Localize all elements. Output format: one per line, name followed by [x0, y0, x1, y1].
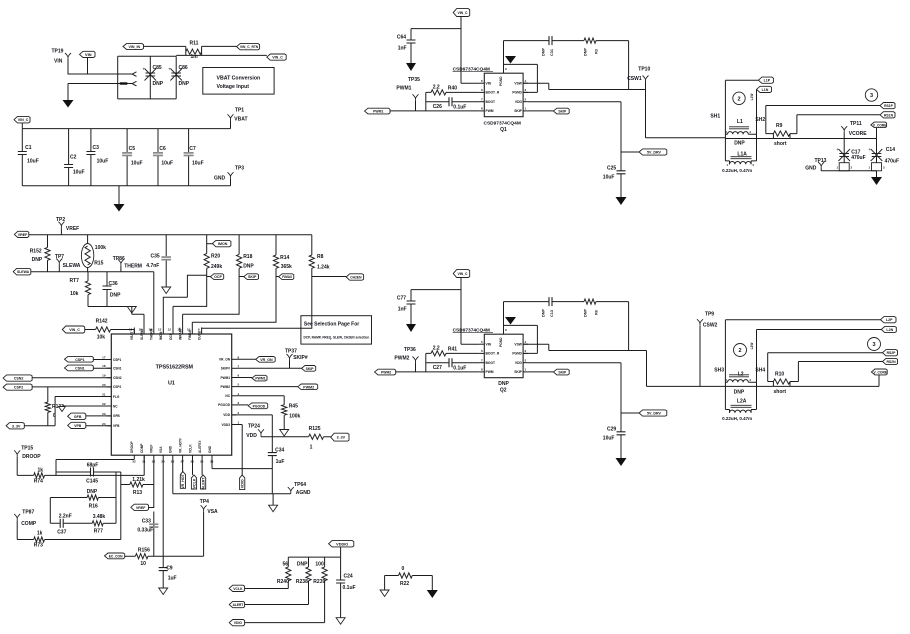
svg-text:RS2N: RS2N	[886, 360, 896, 364]
resistor R14 365k	[275, 235, 277, 277]
power tag VIN_C Q1	[453, 9, 470, 17]
test point TP35 PWM1	[413, 94, 419, 101]
resistor R11	[144, 46, 237, 55]
svg-text:CSP1: CSP1	[113, 358, 122, 362]
pin 22 NC	[107, 405, 112, 407]
svg-text:TP36: TP36	[404, 347, 416, 353]
wire RS2P	[768, 353, 883, 382]
svg-text:PWM: PWM	[486, 109, 494, 113]
net tag V_CORE ch1	[871, 122, 887, 128]
svg-text:CSW2: CSW2	[703, 323, 718, 329]
pin 4 NC	[232, 395, 237, 397]
capacitor C9 1uF	[162, 556, 164, 588]
svg-text:SH3: SH3	[714, 368, 724, 374]
svg-text:R10: R10	[775, 372, 784, 378]
net tag VDIO bottom	[229, 620, 244, 626]
resistor R74 1k	[17, 474, 56, 476]
svg-text:PGOOD: PGOOD	[253, 404, 266, 408]
ground C24	[336, 618, 345, 625]
test point TP37 SKIP#	[287, 354, 293, 361]
net tag SLEWA	[13, 268, 31, 275]
svg-text:+: +	[868, 147, 871, 152]
pin 26 VCLK	[192, 455, 194, 459]
marker circle 3	[865, 89, 877, 101]
wire VDD row	[261, 435, 331, 438]
marker circle 3 ch2	[868, 338, 881, 351]
svg-text:C27: C27	[433, 365, 442, 371]
net tag SKIP Q1	[528, 110, 554, 112]
svg-text:470uF: 470uF	[851, 155, 865, 161]
pin 24 VFB	[107, 425, 112, 427]
svg-text:PWM2: PWM2	[220, 385, 230, 389]
capacitor C77 1nF	[410, 290, 412, 324]
svg-text:R238: R238	[296, 579, 308, 585]
svg-text:U1: U1	[168, 381, 175, 387]
wire SH2 vertical	[756, 89, 758, 160]
svg-text:C2: C2	[70, 155, 77, 161]
svg-text:1: 1	[310, 444, 313, 450]
svg-text:5V_DRV: 5V_DRV	[647, 151, 662, 155]
svg-text:VIN_C: VIN_C	[272, 56, 283, 60]
svg-text:68pF: 68pF	[87, 462, 99, 468]
svg-text:GFB: GFB	[113, 414, 120, 418]
svg-text:15: 15	[139, 328, 143, 332]
svg-text:DNP: DNP	[734, 389, 745, 395]
net tag VIN_C_RTN	[237, 44, 260, 50]
svg-text:DNP: DNP	[32, 257, 43, 263]
svg-text:DNP: DNP	[584, 48, 588, 56]
svg-text:TP37: TP37	[285, 349, 297, 355]
wire VDD3 pin route	[232, 424, 243, 426]
svg-text:ALERT: ALERT	[233, 603, 244, 607]
net tag CSP1	[65, 356, 94, 362]
pin 18 CSN1	[107, 367, 112, 369]
wire output gnd rail	[821, 171, 876, 177]
test point TP4 VSA	[201, 505, 207, 512]
svg-text:2: 2	[737, 96, 740, 102]
svg-text:DNP: DNP	[584, 309, 588, 317]
svg-text:ALERT: ALERT	[201, 477, 205, 490]
ground	[63, 100, 74, 108]
svg-text:SKIP: SKIP	[248, 275, 257, 279]
test point TP15 DROOP	[14, 450, 20, 457]
pin 31 COMP	[143, 455, 145, 459]
svg-text:R13: R13	[133, 490, 142, 496]
svg-text:C5: C5	[129, 146, 136, 152]
capacitor C1	[21, 129, 23, 186]
svg-text:SKIP#: SKIP#	[221, 367, 230, 371]
svg-text:C85: C85	[153, 65, 162, 71]
net tag VIN	[80, 51, 96, 57]
pin 1 VDD3	[232, 424, 237, 426]
note box See Selection	[301, 316, 372, 344]
svg-text:SKIP: SKIP	[306, 367, 315, 371]
resistor R142 10k	[85, 330, 135, 335]
svg-text:DNP: DNP	[243, 264, 254, 270]
wire VDDIO rail	[288, 547, 340, 557]
wire VCC stub Q2	[411, 278, 480, 345]
svg-text:VSW: VSW	[514, 343, 522, 347]
svg-text:GND: GND	[208, 445, 212, 453]
svg-text:ALERT#: ALERT#	[198, 440, 202, 453]
svg-text:VR_ON: VR_ON	[219, 358, 231, 362]
svg-text:GND: GND	[805, 165, 817, 171]
capacitor C26 0.1uF	[426, 92, 480, 111]
ground NC mark	[62, 405, 111, 407]
svg-text:BOOT_R: BOOT_R	[486, 91, 500, 95]
inductor L2A 0.22uH	[731, 405, 752, 407]
svg-text:1k: 1k	[37, 531, 43, 537]
svg-text:0: 0	[402, 566, 405, 572]
svg-text:2.2: 2.2	[433, 85, 440, 91]
svg-text:VSA: VSA	[159, 446, 163, 453]
svg-text:SH4: SH4	[755, 368, 765, 374]
svg-text:CSP2: CSP2	[113, 385, 122, 389]
svg-text:PWM1: PWM1	[255, 377, 265, 381]
wire PWM row Q2	[396, 371, 480, 373]
resistor R132 0	[47, 387, 49, 426]
wire VFB	[86, 425, 112, 427]
svg-text:VREF: VREF	[66, 226, 79, 232]
svg-text:C3: C3	[93, 145, 100, 151]
test point TP1 VBAT	[228, 114, 234, 121]
net tag VCLK bottom	[229, 585, 244, 591]
svg-text:VDD: VDD	[223, 413, 230, 417]
svg-text:C64: C64	[397, 35, 406, 41]
net tag VIN_C 3	[62, 326, 84, 333]
capacitor C37 2.2nF	[50, 522, 92, 524]
svg-text:10uF: 10uF	[73, 170, 85, 176]
svg-text:VIN_C: VIN_C	[457, 272, 468, 276]
svg-text:3: 3	[870, 93, 873, 99]
svg-text:10uF: 10uF	[97, 158, 109, 164]
test point TP87 COMP	[14, 514, 20, 521]
wire VIN tag stub	[87, 58, 89, 75]
svg-text:10uF: 10uF	[603, 436, 615, 442]
pin 14 THERM	[153, 328, 155, 335]
wire VIN_C branch	[176, 54, 267, 56]
net tag RS1N	[880, 112, 895, 118]
svg-text:10uF: 10uF	[131, 160, 143, 166]
svg-text:BOOT: BOOT	[486, 361, 496, 365]
svg-text:TP86: TP86	[113, 256, 125, 262]
IC U1 TPS51622RSM	[111, 334, 231, 455]
net tag CSN2	[3, 375, 32, 381]
wire RS2N	[790, 362, 883, 382]
wire GND rail	[22, 185, 230, 187]
svg-text:C7: C7	[189, 146, 196, 152]
pin 1 SKIP Q1	[523, 110, 528, 112]
svg-text:C25: C25	[607, 165, 616, 171]
svg-text:12: 12	[168, 328, 172, 332]
net tag L2P	[725, 319, 880, 321]
wire VSW net Q1	[523, 83, 629, 89]
resistor RT7 10k	[87, 272, 89, 307]
svg-text:3.48k: 3.48k	[93, 514, 106, 520]
pin 25 ALERT#	[201, 455, 203, 459]
pin 2 VDD Q2	[523, 362, 528, 364]
svg-text:DNP: DNP	[110, 292, 121, 298]
svg-text:1k: 1k	[38, 468, 44, 474]
svg-text:R77: R77	[94, 529, 103, 535]
svg-text:C86: C86	[179, 65, 188, 71]
capacitor C35 4.7nF	[165, 235, 167, 287]
pin 15 SLEWA	[143, 328, 145, 335]
ground R45	[280, 430, 289, 437]
net tag 3_3V	[6, 423, 24, 429]
svg-text:R9: R9	[776, 123, 783, 129]
net tag GFB	[68, 413, 86, 419]
svg-text:14: 14	[148, 328, 152, 332]
wire FIMAX to pin	[192, 277, 276, 328]
IC Q1 CSD97374CQ4M	[484, 73, 523, 117]
svg-text:C35: C35	[151, 253, 160, 259]
wire CSP1	[93, 359, 111, 361]
svg-text:TP15: TP15	[21, 446, 33, 452]
IC Q2 CSD97374CQ4M	[484, 334, 523, 378]
net tag CSP2	[3, 384, 32, 390]
svg-text:GND: GND	[214, 176, 226, 182]
pin 6 BOOT_R Q2	[480, 352, 485, 354]
svg-text:C36: C36	[109, 281, 118, 287]
pin 10 FIMAX	[191, 328, 193, 335]
svg-text:TP10: TP10	[638, 67, 650, 73]
pin 9 OUSB	[201, 328, 203, 335]
wire V_CORE stub ch2	[878, 375, 880, 387]
resistor R73 1k	[17, 455, 144, 539]
svg-text:18: 18	[102, 364, 106, 368]
svg-text:PGND: PGND	[499, 337, 503, 347]
svg-text:365k: 365k	[281, 264, 292, 270]
pin 30 VREF	[153, 455, 155, 459]
capacitor C17 470uF	[843, 133, 845, 163]
test point TP7 SLEWA	[56, 259, 62, 266]
svg-text:2: 2	[738, 348, 741, 354]
svg-text:24: 24	[102, 422, 106, 426]
capacitor C86	[171, 73, 181, 76]
svg-text:VDIO: VDIO	[234, 621, 243, 625]
capacitor C36 DNP	[106, 272, 108, 307]
net tag L1N	[757, 86, 772, 92]
svg-text:56: 56	[283, 562, 289, 568]
ground C29	[616, 458, 627, 466]
svg-text:IMON: IMON	[159, 331, 163, 340]
svg-text:RT7: RT7	[70, 278, 80, 284]
resistor R20 249k	[206, 235, 208, 277]
resistor R8 1.24k	[311, 235, 313, 277]
svg-text:100k: 100k	[95, 245, 106, 251]
svg-text:DNP: DNP	[297, 562, 308, 568]
ground C64	[406, 63, 416, 71]
pin 7 BOOT Q2	[480, 362, 485, 364]
svg-text:DNP: DNP	[542, 48, 546, 56]
svg-text:SH2: SH2	[755, 117, 765, 123]
svg-text:VR_HOT: VR_HOT	[181, 473, 185, 488]
capacitor C24 0.1uF	[340, 557, 342, 618]
ground C9	[159, 588, 168, 595]
wire SLEWA row	[31, 271, 107, 273]
svg-text:VR_ON: VR_ON	[260, 358, 273, 362]
svg-text:TP7: TP7	[55, 254, 64, 260]
net tag L1P	[725, 79, 758, 81]
net tag VDDIO	[329, 541, 354, 547]
wire cap loop	[118, 56, 177, 99]
test point TP13 GND	[818, 162, 824, 169]
svg-text:RS1P: RS1P	[884, 104, 894, 108]
test point TP86 THERM	[118, 259, 124, 266]
svg-text:VSW: VSW	[514, 82, 522, 86]
svg-text:R20: R20	[211, 253, 220, 259]
capacitor C34 1uF	[271, 415, 273, 469]
svg-text:GND: GND	[169, 445, 173, 453]
svg-text:2.2nF: 2.2nF	[59, 513, 72, 519]
svg-text:0.33uF: 0.33uF	[137, 527, 153, 533]
svg-text:TP4: TP4	[200, 499, 209, 505]
wire SH3 vertical	[724, 320, 726, 410]
svg-text:COMP: COMP	[140, 443, 144, 453]
svg-text:DROOP: DROOP	[130, 440, 134, 453]
svg-text:C6: C6	[159, 146, 166, 152]
wire VCORE rail ch2	[725, 385, 879, 387]
svg-text:VDDIO: VDDIO	[336, 542, 348, 546]
net tag VIN_C 2	[14, 116, 30, 123]
svg-text:GFB: GFB	[74, 415, 82, 419]
svg-text:BOOT: BOOT	[486, 100, 496, 104]
svg-text:VFB: VFB	[74, 424, 82, 428]
svg-text:VCLK: VCLK	[233, 587, 243, 591]
svg-text:CSN2: CSN2	[14, 377, 24, 381]
pin 5 VIN Q1	[480, 82, 485, 84]
svg-text:C145: C145	[86, 478, 98, 484]
pin 13 IMON	[162, 328, 164, 335]
wire CSN1	[93, 367, 111, 369]
resistor R240 56	[287, 557, 289, 588]
capacitor C3	[90, 129, 92, 186]
wire SKIP to pin	[183, 277, 240, 328]
svg-text:Voltage Input: Voltage Input	[217, 84, 250, 90]
svg-text:R15: R15	[94, 261, 103, 267]
test point TP19	[65, 53, 71, 60]
pin 20 CSP2	[107, 386, 112, 388]
resistor R9 short	[773, 131, 790, 136]
wire VREF pin net	[153, 460, 155, 557]
wire SLEWA pin route	[132, 307, 144, 335]
capacitor C6	[157, 129, 159, 186]
svg-text:PGND: PGND	[499, 76, 503, 86]
svg-text:10uF: 10uF	[192, 160, 204, 166]
svg-text:100k: 100k	[289, 413, 300, 419]
svg-text:R74: R74	[34, 479, 43, 485]
wire TP15 to R74	[16, 457, 18, 476]
svg-text:PWM1: PWM1	[220, 376, 230, 380]
svg-text:PWM: PWM	[486, 370, 494, 374]
resistor R239 100	[324, 557, 326, 623]
net tag VREF 2	[131, 504, 149, 510]
svg-text:VR_HOT#: VR_HOT#	[178, 438, 182, 453]
wire VDIO bottom	[245, 622, 325, 624]
resistor R238 DNP	[308, 557, 310, 604]
wire VCC stub Q1	[411, 17, 480, 84]
svg-text:PWM1: PWM1	[373, 110, 383, 114]
svg-text:IMON: IMON	[218, 242, 228, 246]
wire CSW2 net	[629, 326, 726, 387]
pin 12 OCP	[172, 328, 174, 335]
svg-text:OCP: OCP	[214, 275, 222, 279]
net tag PWM1 u1	[237, 377, 253, 379]
connector pin lower	[132, 81, 136, 86]
svg-text:SKIP: SKIP	[514, 370, 522, 374]
svg-text:V_CORE: V_CORE	[874, 370, 888, 374]
svg-text:TP11: TP11	[850, 121, 862, 127]
svg-text:VREF: VREF	[18, 233, 28, 237]
net tag RS2N	[883, 358, 898, 364]
svg-text:470uF: 470uF	[885, 159, 899, 165]
pin 17 CSP1	[107, 359, 112, 361]
svg-text:3_3V: 3_3V	[12, 424, 21, 428]
svg-text:OUSB: OUSB	[197, 330, 201, 340]
svg-text:RS2P: RS2P	[887, 351, 897, 355]
net tag 3_3V 2	[331, 433, 349, 441]
wire TP4 down	[203, 512, 205, 556]
pin 5 VIN Q2	[480, 343, 485, 345]
svg-text:PWM2: PWM2	[394, 355, 409, 361]
svg-text:21: 21	[102, 393, 106, 397]
svg-text:VSA: VSA	[207, 509, 218, 515]
svg-text:OCP: OCP	[169, 332, 173, 340]
svg-text:0.22uH, 0.47m: 0.22uH, 0.47m	[722, 168, 752, 173]
svg-text:10uF: 10uF	[161, 160, 173, 166]
svg-text:TP87: TP87	[22, 510, 34, 516]
svg-text:10: 10	[187, 328, 191, 332]
svg-text:TP3: TP3	[235, 166, 244, 172]
marker circle 2	[733, 92, 745, 104]
svg-text:10uF: 10uF	[27, 158, 39, 164]
ground output	[871, 177, 882, 185]
svg-text:SLEWA: SLEWA	[63, 263, 81, 269]
wire CH2EN to pin	[202, 277, 312, 329]
pin 23 GFB	[107, 415, 112, 417]
net tag PWM2	[375, 369, 396, 375]
svg-text:C9: C9	[166, 565, 173, 571]
wire TP87 to R73	[16, 520, 18, 539]
svg-text:23: 23	[102, 412, 106, 416]
net tag PGOOD	[237, 404, 249, 406]
resistor R125 1	[309, 434, 324, 439]
svg-text:FLG: FLG	[113, 395, 120, 399]
svg-text:L1A: L1A	[737, 152, 747, 158]
svg-text:DNP: DNP	[87, 489, 98, 495]
wire VREF rail	[29, 234, 312, 236]
wire VDD net Q2	[528, 363, 621, 432]
net tag SKIP Q2	[528, 371, 554, 373]
svg-text:TP35: TP35	[408, 77, 420, 83]
pin 33 GND	[211, 455, 213, 459]
svg-text:Q1: Q1	[500, 127, 507, 133]
test point TP3 GND	[228, 172, 234, 179]
net tag VCLK vert	[192, 460, 194, 475]
pin 16 VBAT	[133, 328, 135, 335]
wire comp right vert	[116, 472, 121, 540]
resistor R3 DNP snubber	[584, 38, 596, 43]
pin 2 VDD	[232, 414, 237, 416]
svg-text:DNP: DNP	[498, 381, 509, 387]
pin 8 VR_ON	[232, 358, 237, 360]
net tag L2N	[757, 330, 882, 410]
svg-text:L1P: L1P	[764, 79, 771, 83]
svg-text:DNP: DNP	[734, 141, 745, 147]
svg-text:100: 100	[315, 562, 324, 568]
wire VDD pin route	[232, 414, 273, 416]
